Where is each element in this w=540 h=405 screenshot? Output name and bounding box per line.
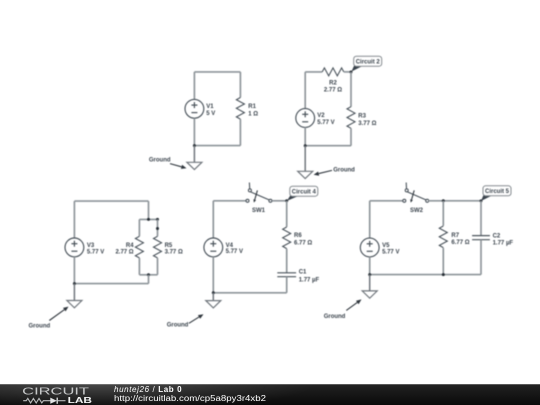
svg-text:LAB: LAB bbox=[68, 396, 93, 405]
svg-text:huntej26 / Lab 0: huntej26 / Lab 0 bbox=[114, 385, 182, 394]
svg-text:http://circuitlab.com/cp5a8py3: http://circuitlab.com/cp5a8py3r4xb2 bbox=[114, 394, 267, 403]
